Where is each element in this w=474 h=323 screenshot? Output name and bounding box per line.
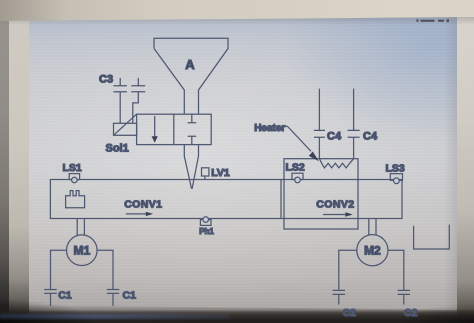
svg-text:CONV1: CONV1 [124, 199, 162, 211]
wire M2 right to C2 [388, 250, 404, 290]
svg-text:C2: C2 [404, 307, 418, 319]
svg-text:Sol1: Sol1 [106, 143, 129, 155]
conveyor 1 right edge [280, 180, 282, 219]
valve V1 body [137, 114, 212, 144]
svg-text:C3: C3 [99, 74, 113, 86]
workpiece on conveyor 1 [66, 191, 85, 208]
capacitor C2 left [333, 290, 356, 319]
svg-text:C4: C4 [363, 131, 378, 143]
svg-text:C4: C4 [327, 131, 342, 143]
motor M2 [357, 219, 388, 266]
wire M1 right to C1 [97, 250, 113, 289]
capacitor C3 right contact [131, 78, 145, 123]
svg-text:C2: C2 [343, 307, 357, 319]
svg-text:M2: M2 [364, 244, 381, 258]
valve flow arrow [152, 116, 158, 143]
svg-text:C1: C1 [58, 289, 72, 301]
limit switch LS1 [63, 162, 82, 183]
svg-text:LS2: LS2 [286, 161, 305, 173]
svg-text:M1: M1 [73, 244, 90, 258]
capacitor C4 left [314, 89, 342, 159]
svg-text:LS1: LS1 [63, 162, 82, 174]
svg-text:A: A [185, 57, 195, 72]
nozzle [184, 145, 198, 189]
limit switch LS2 [286, 161, 305, 182]
motor M1 [67, 219, 98, 266]
label CONV1 with arrow [124, 199, 162, 217]
screen header marks top right [417, 19, 450, 22]
capacitor C3 left contact [113, 78, 127, 123]
svg-text:LV1: LV1 [211, 167, 230, 179]
level sensor LV1 [202, 168, 209, 180]
valve blocked port top [188, 114, 197, 123]
valve blocked port bottom [188, 136, 197, 144]
oven CONV2 box [284, 159, 358, 229]
capacitor C1 right [107, 289, 136, 306]
capacitor C4 right [348, 89, 378, 159]
heater label and leader arrow [254, 123, 319, 161]
svg-text:C1: C1 [123, 289, 137, 301]
collection bin [414, 225, 450, 249]
heater element zigzag [319, 159, 353, 168]
wire M1 left to C1 [51, 250, 67, 289]
solenoid Sol1 [114, 114, 137, 135]
svg-text:CONV2: CONV2 [316, 199, 354, 211]
photo sensor Ph1 [199, 217, 214, 236]
wire M2 left to C2 [339, 250, 357, 290]
svg-text:LS3: LS3 [386, 162, 405, 174]
conveyor table [50, 180, 402, 219]
capacitor C2 right [398, 290, 418, 319]
hopper A [154, 38, 228, 114]
svg-text:Heater: Heater [254, 123, 285, 134]
label CONV2 with arrow [316, 199, 354, 217]
capacitor C1 left [44, 289, 71, 306]
limit switch LS3 [386, 162, 405, 183]
svg-text:Ph1: Ph1 [199, 227, 214, 236]
